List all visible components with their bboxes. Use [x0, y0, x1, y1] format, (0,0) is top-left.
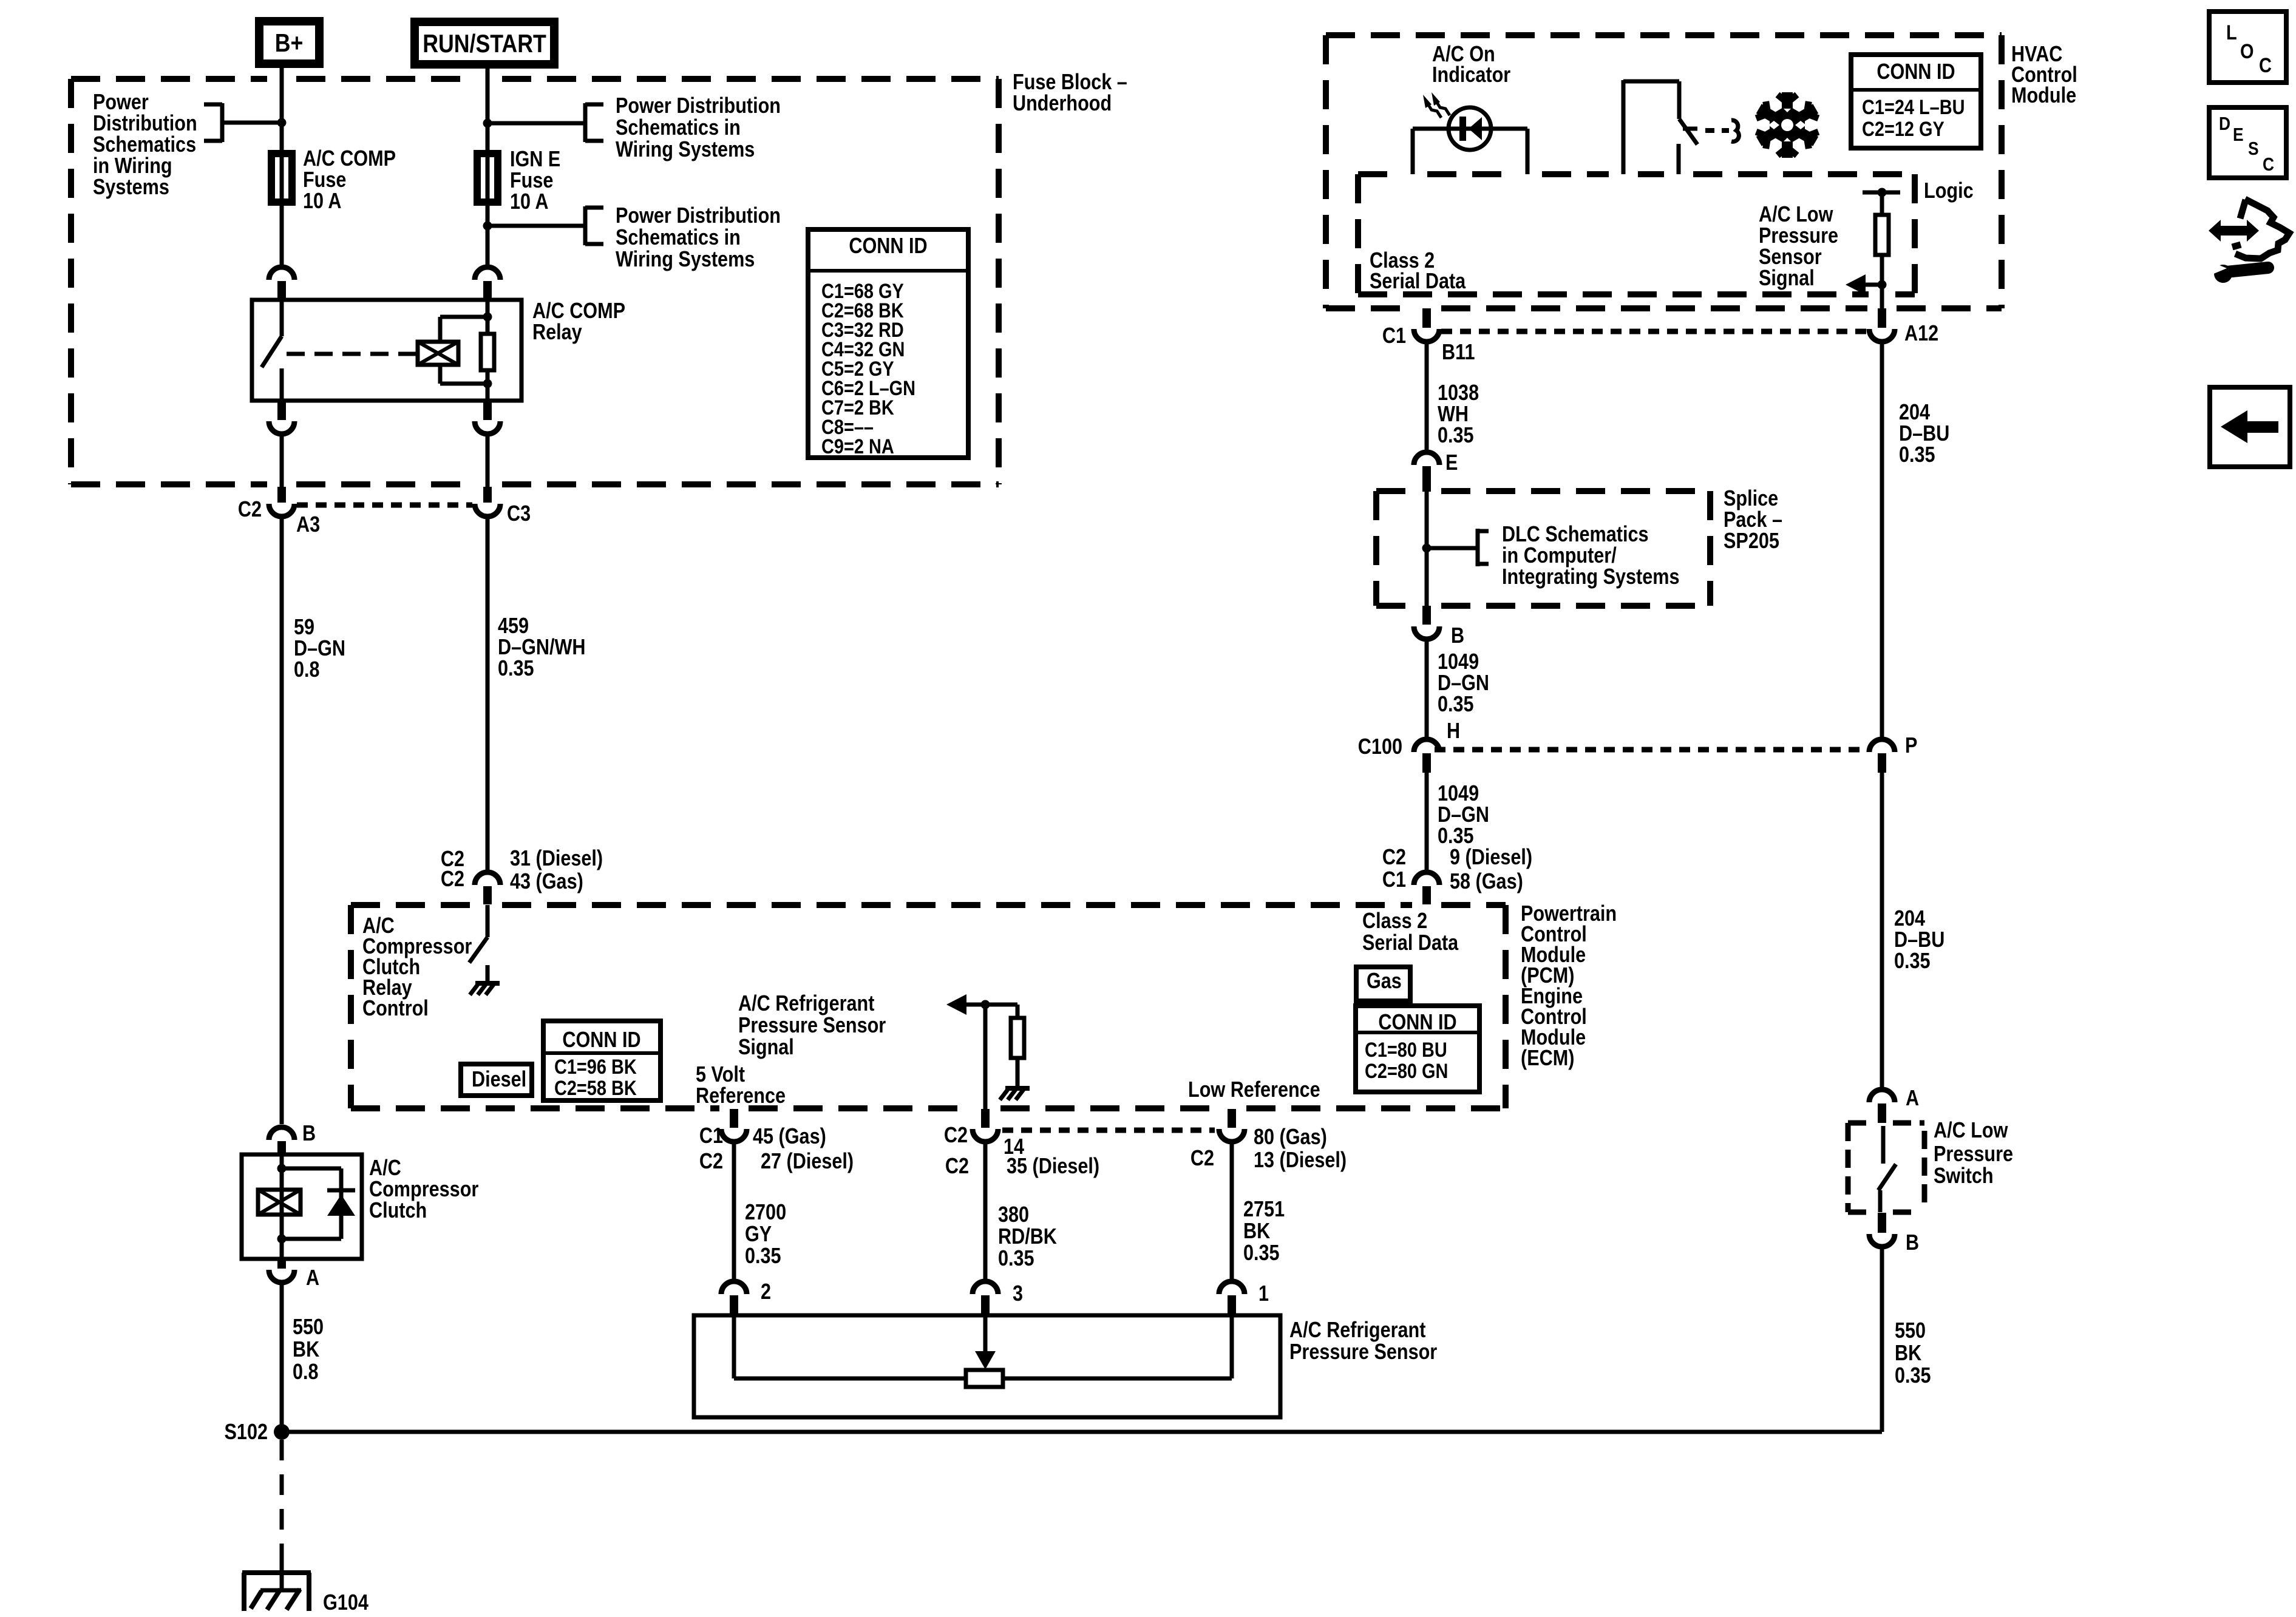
junction node on B+ wire [277, 118, 287, 127]
svg-text:550: 550 [293, 1314, 324, 1339]
connector A into low pressure switch [1869, 1090, 1895, 1102]
connector pin 2 [721, 1281, 747, 1294]
svg-text:Underhood: Underhood [1013, 90, 1112, 115]
junction on signal wire [981, 1000, 990, 1009]
svg-text:RUN/START: RUN/START [423, 29, 546, 58]
wire S102 to A/C low pressure switch [282, 1430, 1882, 1434]
svg-text:H: H [1447, 718, 1460, 743]
svg-text:0.35: 0.35 [745, 1243, 781, 1268]
wire 204 D-BU upper [1880, 342, 1884, 737]
svg-text:A/C Refrigerant: A/C Refrigerant [738, 991, 874, 1015]
icon back arrow box [2210, 387, 2290, 467]
svg-text:G104: G104 [323, 1590, 369, 1615]
svg-text:P: P [1905, 733, 1917, 758]
svg-text:Pressure Sensor: Pressure Sensor [1289, 1339, 1437, 1364]
svg-text:E: E [1445, 450, 1458, 475]
clutch coil [258, 1190, 301, 1215]
svg-text:C2: C2 [441, 866, 464, 891]
svg-text:10 A: 10 A [303, 188, 342, 213]
sensor wiper arrow [983, 1315, 988, 1352]
fuse IGN E 10A [486, 150, 490, 206]
svg-text:C9=2 NA: C9=2 NA [821, 435, 894, 458]
svg-text:C1: C1 [699, 1123, 723, 1148]
icon DESC box [2209, 107, 2286, 178]
relay coil [418, 342, 458, 365]
A/C on indicator LED loop [1411, 129, 1415, 174]
svg-text:B: B [1451, 623, 1464, 648]
connector B into clutch [269, 1127, 294, 1140]
low pressure switch contacts [1881, 1126, 1886, 1164]
wire B+ down to A/C COMP fuse [280, 68, 284, 150]
connector C2 signal [981, 1109, 990, 1128]
svg-text:BK: BK [1243, 1218, 1270, 1243]
connector pin 3 [973, 1281, 998, 1294]
svg-text:A/C Refrigerant: A/C Refrigerant [1289, 1317, 1425, 1342]
svg-text:0.8: 0.8 [294, 657, 320, 682]
fuse A/C COMP 10A [280, 150, 284, 206]
svg-text:80 (Gas): 80 (Gas) [1254, 1124, 1327, 1149]
sensor signal resistor in HVAC [1880, 192, 1884, 215]
svg-text:C2: C2 [945, 1153, 969, 1178]
relay switch contact lower [280, 368, 284, 401]
svg-text:C1: C1 [1382, 323, 1406, 348]
svg-text:BK: BK [1895, 1340, 1921, 1365]
svg-text:Wiring Systems: Wiring Systems [616, 246, 755, 271]
CONN ID table HVAC [1851, 55, 1981, 148]
svg-text:S: S [2248, 138, 2259, 159]
svg-text:C2: C2 [699, 1148, 723, 1173]
svg-text:Gas: Gas [1367, 968, 1402, 993]
off-page bracket upper right [583, 103, 588, 142]
sensor potentiometer [966, 1370, 1003, 1387]
connector B out of low pressure switch [1878, 1213, 1886, 1233]
CONN ID table PCM gas [1356, 1006, 1479, 1092]
svg-text:C2: C2 [1382, 844, 1406, 869]
svg-text:380: 380 [998, 1202, 1029, 1227]
svg-text:C2: C2 [1190, 1145, 1214, 1170]
signal arrow [946, 994, 966, 1015]
svg-text:Power Distribution: Power Distribution [616, 93, 781, 118]
svg-text:B: B [1906, 1230, 1919, 1255]
svg-text:9 (Diesel): 9 (Diesel) [1450, 844, 1532, 869]
wire to power distribution bracket (lower right) [487, 224, 584, 228]
svg-text:Schematics in: Schematics in [616, 115, 741, 140]
svg-text:BK: BK [293, 1337, 319, 1361]
off-page bracket lower right [583, 206, 588, 245]
dotted connector line C100 [1435, 747, 1864, 753]
relay coil bottom wire [438, 365, 443, 384]
svg-text:CONN ID: CONN ID [849, 233, 927, 258]
LED circle [1449, 107, 1491, 150]
A/C compressor clutch box [242, 1154, 362, 1259]
wire 459 D-GN/WH [486, 519, 490, 871]
wire fuse to relay connector [280, 206, 284, 265]
icon hand with arrow and wrench [2232, 199, 2289, 259]
svg-text:D: D [2219, 113, 2230, 134]
svg-text:Power Distribution: Power Distribution [616, 203, 781, 228]
relay internal resistor [481, 334, 494, 370]
junction below IGN E fuse [486, 206, 490, 265]
wire to DLC bracket [1427, 546, 1476, 551]
svg-text:Switch: Switch [1934, 1163, 1994, 1188]
svg-text:A12: A12 [1904, 320, 1938, 345]
dotted connector line PCM bottom [1002, 1128, 1215, 1133]
wire 204 D-BU lower [1880, 773, 1884, 1088]
signal arrow HVAC [1878, 280, 1887, 290]
svg-text:C2: C2 [944, 1122, 968, 1147]
svg-text:O: O [2240, 40, 2254, 63]
wire 380 RD/BK [983, 1144, 988, 1279]
svg-text:Module: Module [2011, 83, 2076, 107]
junction node on RUN/START wire [483, 119, 492, 128]
dotted connector line HVAC [1441, 329, 1867, 334]
connector into relay (right) [475, 267, 500, 280]
svg-text:Control: Control [362, 995, 429, 1020]
connector C100 [1414, 739, 1439, 752]
svg-text:Serial Data: Serial Data [1370, 268, 1466, 293]
svg-text:B+: B+ [275, 29, 304, 57]
relay A/C COMP box [252, 300, 521, 401]
wire 2700 GY [732, 1144, 736, 1279]
svg-text:35 (Diesel): 35 (Diesel) [1007, 1153, 1099, 1178]
fuse block bottom connector dotted line [297, 503, 472, 508]
snowflake icon [1756, 92, 1819, 158]
logic inner dashed box [1358, 171, 1398, 177]
svg-text:Low Reference: Low Reference [1188, 1077, 1320, 1102]
relay right wire through [486, 300, 490, 334]
wire 59 D-GN [280, 519, 284, 1124]
chassis ground under relay control switch [475, 981, 500, 986]
svg-text:Class 2: Class 2 [1362, 908, 1427, 933]
connector A12 [1878, 308, 1886, 328]
connector A out of clutch [277, 1259, 286, 1269]
fuse block underhood dashed box [71, 76, 267, 82]
svg-text:C1=24 L–BU: C1=24 L–BU [1862, 96, 1965, 119]
connector C2 low ref [1228, 1109, 1236, 1128]
svg-text:Clutch: Clutch [369, 1198, 427, 1222]
splice wire [1425, 491, 1429, 606]
relay control dashed line [287, 352, 418, 356]
wire 2751 BK [1230, 1144, 1234, 1279]
svg-text:43 (Gas): 43 (Gas) [510, 869, 583, 893]
wire RUN/START down to IGN E fuse [486, 69, 490, 150]
connector C1/C2 5V ref [730, 1109, 738, 1128]
HVAC control module dashed box [1326, 32, 2002, 38]
svg-text:0.35: 0.35 [1894, 948, 1931, 973]
sensor internal wires [732, 1315, 736, 1378]
svg-text:Systems: Systems [93, 174, 169, 199]
connector E into splice pack [1414, 452, 1439, 465]
svg-text:550: 550 [1895, 1318, 1926, 1343]
connector P [1869, 739, 1895, 752]
switch linkage dashes [1705, 128, 1729, 133]
svg-text:0.35: 0.35 [1438, 422, 1474, 447]
splice pack dashed box [1376, 488, 1412, 494]
svg-text:(ECM): (ECM) [1521, 1045, 1574, 1070]
PCM dashed box [351, 902, 473, 908]
relay control switch in PCM [483, 886, 492, 904]
svg-text:CONN ID: CONN ID [1877, 59, 1955, 84]
svg-text:Diesel: Diesel [472, 1066, 526, 1091]
svg-text:Pressure Sensor: Pressure Sensor [738, 1012, 886, 1037]
A/C request switch [1622, 80, 1626, 174]
svg-text:58 (Gas): 58 (Gas) [1450, 869, 1523, 893]
Diesel box [461, 1064, 532, 1096]
svg-text:GY: GY [745, 1221, 772, 1246]
clutch diode branch [282, 1167, 341, 1171]
A/C low pressure switch dashed box [1848, 1120, 1871, 1126]
svg-text:C100: C100 [1358, 734, 1402, 759]
wire 1049 D-GN lower [1425, 773, 1429, 871]
svg-text:Wiring Systems: Wiring Systems [616, 137, 755, 161]
svg-text:A: A [306, 1265, 319, 1290]
svg-text:A/C Low: A/C Low [1934, 1117, 2008, 1142]
junction dots on relay right wire [483, 313, 492, 322]
svg-text:RD/BK: RD/BK [998, 1224, 1057, 1249]
svg-text:27 (Diesel): 27 (Diesel) [761, 1148, 854, 1173]
relay coil top wire [438, 317, 443, 342]
svg-text:B: B [302, 1120, 316, 1145]
wire to power distribution bracket (upper right) [487, 121, 584, 126]
relay output connector left C2/A3 [277, 401, 286, 420]
connector into relay (left) [269, 267, 294, 280]
svg-text:SP205: SP205 [1724, 528, 1779, 553]
icon LOC box [2209, 12, 2286, 83]
svg-text:1: 1 [1258, 1281, 1269, 1306]
CONN ID table PCM diesel [543, 1021, 661, 1100]
svg-text:Reference: Reference [696, 1083, 786, 1108]
connector C1/B11 [1422, 308, 1431, 328]
chassis ground under bias resistor [1005, 1086, 1030, 1091]
relay switch contact upper [280, 300, 284, 336]
svg-text:0.35: 0.35 [1243, 1240, 1280, 1265]
svg-text:2700: 2700 [745, 1199, 786, 1224]
svg-text:Indicator: Indicator [1432, 62, 1510, 87]
svg-text:C3: C3 [507, 501, 531, 526]
connector B out of splice pack [1422, 606, 1431, 625]
svg-text:C1=96 BK: C1=96 BK [554, 1056, 637, 1079]
svg-text:Logic: Logic [1924, 178, 1974, 203]
svg-text:C1: C1 [1382, 867, 1406, 892]
svg-text:0.8: 0.8 [293, 1359, 319, 1384]
svg-text:C: C [2263, 154, 2274, 175]
connector C2/C1 into PCM [1414, 872, 1439, 885]
svg-text:13 (Diesel): 13 (Diesel) [1254, 1147, 1347, 1172]
svg-text:45 (Gas): 45 (Gas) [753, 1124, 826, 1148]
svg-text:E: E [2233, 124, 2244, 145]
svg-text:0.35: 0.35 [998, 1246, 1034, 1270]
svg-text:C: C [2259, 54, 2272, 77]
Gas box [1356, 967, 1410, 1001]
svg-text:C2=12 GY: C2=12 GY [1862, 118, 1944, 141]
LED diode [1459, 117, 1466, 141]
svg-text:C2=80 GN: C2=80 GN [1365, 1060, 1448, 1083]
power terminal RUN/START [410, 18, 559, 69]
splice S102 [274, 1424, 290, 1440]
bias resistor branch [1016, 1005, 1020, 1018]
svg-text:10 A: 10 A [510, 189, 549, 214]
svg-text:A: A [1906, 1085, 1919, 1110]
wire 1038 WH [1425, 342, 1429, 452]
ground lead dashed [280, 1440, 284, 1573]
svg-text:Schematics in: Schematics in [616, 225, 741, 249]
relay output connector right C3 [483, 401, 492, 420]
DLC bracket [1476, 529, 1480, 566]
svg-text:Serial Data: Serial Data [1362, 930, 1459, 955]
svg-text:C2: C2 [238, 497, 262, 521]
connector C2 C2 into PCM [475, 872, 500, 885]
svg-text:Pressure: Pressure [1934, 1141, 2013, 1166]
svg-text:A3: A3 [296, 512, 320, 537]
svg-text:S102: S102 [225, 1419, 268, 1444]
wire to power distribution bracket (left) [223, 121, 282, 125]
svg-text:Signal: Signal [738, 1034, 794, 1059]
svg-text:B11: B11 [1442, 339, 1475, 364]
svg-text:C1=80 BU: C1=80 BU [1365, 1039, 1447, 1062]
svg-text:CONN ID: CONN ID [562, 1027, 640, 1052]
svg-text:Integrating Systems: Integrating Systems [1502, 564, 1680, 589]
A/C refrigerant pressure sensor box [694, 1315, 1280, 1417]
signal wire down [983, 1005, 988, 1109]
clutch diode [327, 1195, 355, 1216]
svg-text:Signal: Signal [1759, 265, 1815, 290]
svg-text:C2=58 BK: C2=58 BK [554, 1077, 637, 1100]
LED light arrows [1427, 100, 1450, 118]
clutch coil wire [280, 1154, 284, 1259]
svg-text:L: L [2226, 21, 2237, 44]
svg-text:0.35: 0.35 [498, 656, 534, 680]
svg-text:Relay: Relay [532, 319, 582, 344]
connector pin 1 [1219, 1281, 1245, 1294]
ground G104 symbol [242, 1570, 311, 1575]
svg-text:0.35: 0.35 [1438, 691, 1474, 716]
svg-text:2: 2 [761, 1279, 771, 1304]
wire 550 BK right [1880, 1249, 1884, 1275]
wire 550 BK to S102 [280, 1283, 284, 1432]
svg-text:31 (Diesel): 31 (Diesel) [510, 846, 603, 870]
svg-text:0.35: 0.35 [1899, 442, 1935, 467]
wire 1049 D-GN upper [1425, 641, 1429, 737]
svg-text:3: 3 [1013, 1281, 1023, 1306]
A/C low pressure sensor signal stub [1863, 191, 1900, 195]
svg-text:0.35: 0.35 [1895, 1363, 1931, 1388]
off-page bracket left [220, 103, 225, 142]
CONN ID table fuse block [808, 229, 968, 458]
svg-text:CONN ID: CONN ID [1378, 1009, 1456, 1034]
svg-text:2751: 2751 [1243, 1196, 1285, 1221]
power terminal B+ [255, 17, 324, 68]
relay switch blade [262, 336, 282, 367]
